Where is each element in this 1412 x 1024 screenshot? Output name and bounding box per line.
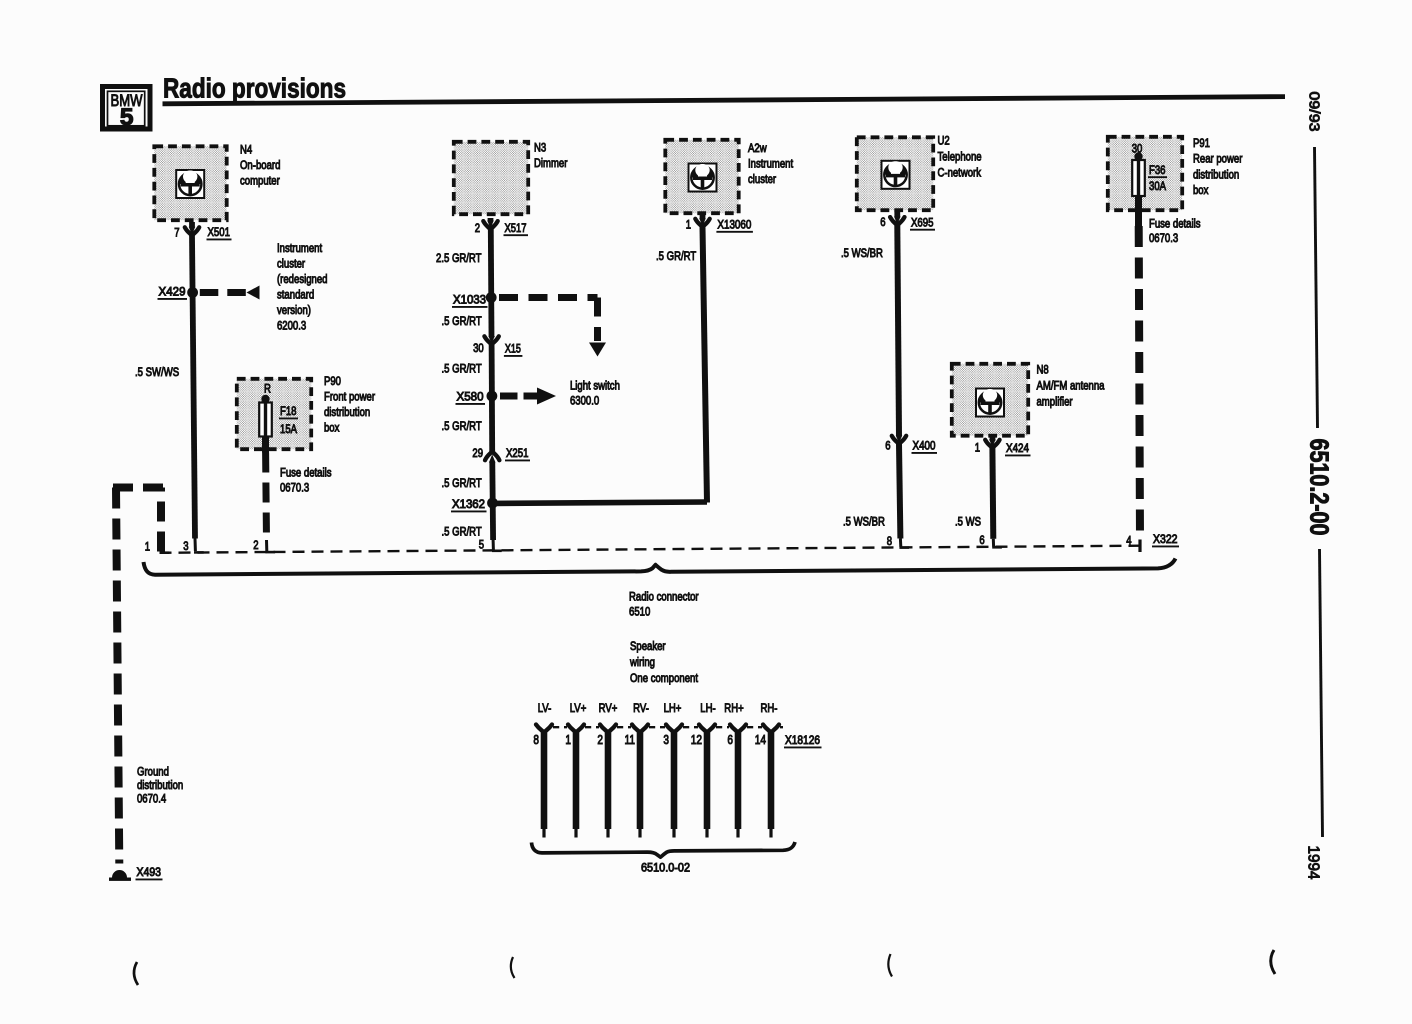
- label U2 Telephone C-network: [938, 134, 982, 180]
- ground terminal X493: [109, 870, 131, 881]
- component A2w instrument cluster box: [665, 140, 738, 213]
- wire stub from N3 pin 2: [488, 218, 494, 221]
- wire stub from N8 pin 1: [990, 438, 996, 441]
- wire foot at pin 1: [160, 551, 170, 554]
- wire foot at pin 6: [992, 546, 1002, 549]
- svg-text:0670.4: 0670.4: [137, 792, 166, 806]
- label Fuse details 0670.3 (P91): [1149, 217, 1201, 246]
- svg-text:Fuse details: Fuse details: [280, 466, 332, 480]
- svg-text:amplifier: amplifier: [1037, 395, 1073, 409]
- svg-text:11: 11: [625, 732, 636, 747]
- svg-text:X493: X493: [137, 865, 162, 879]
- svg-text:X18126: X18126: [785, 733, 820, 747]
- component N8 AM/FM antenna amplifier box: [952, 364, 1028, 436]
- svg-text:RH-: RH-: [761, 701, 778, 715]
- connector X13060 fork: [695, 218, 709, 227]
- wire X424 to radio connector pin 6 (.5 WS): [989, 448, 996, 539]
- connector X15 fork: [484, 336, 498, 344]
- svg-text:.5 GR/RT: .5 GR/RT: [442, 419, 483, 433]
- svg-text:.5 GR/RT: .5 GR/RT: [656, 249, 697, 263]
- svg-text:C-network: C-network: [938, 166, 982, 180]
- component P91 rear power distribution box: [1108, 137, 1182, 210]
- speaker wire end stub 14: [769, 829, 772, 838]
- sidebar rule lower: [1320, 549, 1323, 837]
- thin wire end at pin 6: [992, 539, 995, 547]
- wire X15 to X251: [489, 345, 495, 452]
- svg-text:version): version): [277, 303, 311, 317]
- svg-text:wiring: wiring: [629, 655, 655, 669]
- label P90 Front power distribution box: [324, 374, 375, 435]
- svg-text:Dimmer: Dimmer: [534, 156, 567, 170]
- label Fuse details 0670.3 (P90): [280, 466, 332, 495]
- title underline rule: [163, 97, 1286, 104]
- dashed jumper line across speaker forks: [553, 726, 783, 728]
- svg-text:X695: X695: [911, 215, 934, 229]
- arrowhead right to light switch: [537, 388, 556, 405]
- svg-text:7: 7: [174, 226, 179, 240]
- svg-text:X517: X517: [505, 221, 527, 235]
- speaker wire end stub 1: [574, 829, 577, 838]
- label Ground distribution 0670.4: [137, 765, 183, 806]
- svg-text:12: 12: [691, 732, 702, 747]
- svg-text:cluster: cluster: [277, 257, 305, 271]
- thin wire end at pin 8: [899, 539, 902, 547]
- svg-text:distribution: distribution: [137, 778, 183, 792]
- svg-text:X429: X429: [159, 285, 186, 299]
- svg-text:F36: F36: [1149, 163, 1166, 177]
- svg-text:X1033: X1033: [453, 293, 486, 307]
- svg-text:.5 SW/WS: .5 SW/WS: [135, 365, 179, 379]
- thin wire end at pin 5: [492, 540, 495, 550]
- wire foot at pin 2: [265, 551, 275, 554]
- svg-text:1994: 1994: [1305, 846, 1322, 880]
- svg-text:One component: One component: [630, 671, 698, 685]
- speaker fork pin 1: [568, 725, 584, 733]
- svg-text:A2w: A2w: [748, 141, 767, 155]
- speaker fork pin 2: [600, 725, 616, 733]
- svg-text:0670.3: 0670.3: [1149, 231, 1178, 245]
- label N8 AM/FM antenna amplifier: [1037, 363, 1105, 409]
- arrowhead down to light switch: [589, 343, 606, 357]
- svg-text:6510: 6510: [629, 605, 650, 619]
- arrowhead toward X429 (instrument cluster feed): [247, 286, 260, 300]
- svg-text:X322: X322: [1153, 532, 1178, 546]
- speaker wire 11: [637, 733, 644, 830]
- wire X400 to radio connector pin 8: [899, 444, 900, 539]
- brace radio connector 6510: [144, 559, 1176, 575]
- svg-text:X15: X15: [505, 342, 521, 356]
- svg-text:X501: X501: [208, 225, 231, 239]
- radio connector dashed line: [160, 546, 1141, 553]
- svg-text:6: 6: [727, 732, 733, 747]
- svg-text:3: 3: [183, 539, 188, 553]
- node X580: [487, 391, 498, 402]
- node X1033: [486, 292, 497, 303]
- sidebar rule upper: [1315, 147, 1318, 428]
- svg-text:P90: P90: [324, 374, 341, 388]
- connector X517 fork: [483, 221, 497, 230]
- svg-text:Instrument: Instrument: [748, 157, 794, 171]
- svg-text:8: 8: [887, 534, 892, 548]
- speaker wire end stub 8: [542, 829, 545, 838]
- label P91 Rear power distribution box: [1193, 136, 1242, 197]
- wire U2 X695 to X400: [897, 225, 899, 435]
- speaker fork pin 8: [536, 725, 552, 733]
- node X429: [187, 287, 198, 298]
- svg-text:X400: X400: [913, 439, 936, 453]
- svg-text:.5 GR/RT: .5 GR/RT: [442, 525, 483, 539]
- svg-text:Speaker: Speaker: [630, 639, 666, 653]
- svg-text:U2: U2: [938, 134, 950, 148]
- speaker fork pin 3: [666, 725, 682, 733]
- svg-text:X1362: X1362: [452, 497, 485, 511]
- svg-text:.5 WS: .5 WS: [955, 515, 981, 529]
- svg-text:14: 14: [755, 732, 766, 747]
- fold mark 3: [888, 954, 892, 977]
- speaker fork pin 14: [763, 725, 779, 733]
- svg-text:.5 WS/BR: .5 WS/BR: [843, 515, 885, 529]
- svg-text:8: 8: [533, 732, 539, 747]
- svg-text:.5 GR/RT: .5 GR/RT: [442, 476, 483, 490]
- dashed wire P90 to radio connector pin 2: [262, 453, 270, 541]
- speaker wire 8: [541, 733, 548, 830]
- svg-text:.5 WS/BR: .5 WS/BR: [841, 246, 883, 260]
- thin wire end at pin 2: [265, 540, 268, 551]
- svg-text:X13060: X13060: [717, 217, 751, 231]
- svg-text:X424: X424: [1006, 441, 1029, 455]
- svg-text:X580: X580: [457, 390, 484, 404]
- thin wire end at pin 3: [194, 539, 197, 552]
- speaker fork pin 6: [730, 725, 746, 733]
- svg-text:LH-: LH-: [700, 701, 715, 715]
- svg-text:3: 3: [663, 732, 669, 747]
- wire from fuse F36: [1135, 196, 1142, 226]
- svg-text:N4: N4: [240, 143, 252, 157]
- svg-text:X251: X251: [506, 446, 529, 460]
- svg-text:15A: 15A: [280, 422, 298, 436]
- wire foot at pin 3: [194, 551, 204, 554]
- connector X424 fork: [985, 439, 999, 448]
- component P90 front power distribution box: [237, 379, 311, 449]
- svg-text:0670.3: 0670.3: [280, 481, 309, 495]
- fuse F18 15A symbol: [259, 395, 272, 438]
- svg-text:F18: F18: [280, 404, 297, 418]
- svg-text:On-board: On-board: [240, 158, 280, 172]
- svg-text:2: 2: [253, 538, 258, 552]
- svg-text:RV+: RV+: [599, 701, 618, 715]
- svg-text:2: 2: [597, 732, 603, 747]
- svg-text:(redesigned: (redesigned: [277, 272, 328, 286]
- svg-text:computer: computer: [240, 174, 280, 188]
- fold mark 2: [511, 957, 515, 978]
- speaker wire 14: [768, 733, 775, 830]
- dashed branch wire to instrument cluster: [200, 289, 246, 296]
- wire X1362 to A2w branch: [493, 502, 708, 503]
- speaker wire end stub 2: [606, 829, 609, 838]
- svg-text:Fuse details: Fuse details: [1149, 217, 1201, 231]
- speaker wire 3: [671, 733, 678, 830]
- component U2 telephone box: [857, 137, 933, 210]
- label Speaker wiring One component: [629, 639, 698, 685]
- N8 control-unit symbol: [976, 389, 1004, 417]
- dashed ground wire bridge: [157, 488, 165, 552]
- speaker fork pin 11: [632, 725, 648, 733]
- svg-text:6200.3: 6200.3: [277, 319, 306, 333]
- speaker wire end stub 3: [672, 829, 675, 838]
- svg-text:cluster: cluster: [748, 172, 776, 186]
- svg-text:LV-: LV-: [538, 701, 552, 715]
- wire N4 to radio connector pin 3 (.5 SW/WS): [192, 236, 195, 539]
- component N4 on-board computer box: [154, 146, 226, 220]
- connector X695 fork: [890, 217, 904, 226]
- svg-text:6: 6: [979, 533, 984, 547]
- svg-text:1: 1: [686, 217, 691, 231]
- svg-text:30: 30: [473, 341, 484, 355]
- svg-text:1: 1: [975, 441, 980, 455]
- svg-text:6: 6: [880, 215, 885, 229]
- svg-text:LH+: LH+: [664, 701, 682, 715]
- speaker wire 2: [605, 733, 612, 830]
- connector X251 fork: [485, 452, 499, 463]
- wire X251 to radio connector pin 5: [489, 463, 496, 541]
- connector X501 fork: [185, 227, 199, 236]
- label Light switch 6300.0: [570, 379, 620, 408]
- dashed branch wire from X1033 to light switch: [499, 298, 598, 342]
- svg-text:box: box: [324, 421, 339, 435]
- svg-text:5: 5: [120, 104, 134, 131]
- wire foot at pin 8: [899, 546, 909, 549]
- svg-text:R: R: [264, 382, 271, 396]
- svg-text:RH+: RH+: [724, 701, 743, 715]
- svg-text:29: 29: [472, 446, 483, 460]
- wire stub from N4 pin 7: [189, 222, 195, 228]
- speaker wire 6: [735, 733, 742, 830]
- svg-text:Front power: Front power: [324, 390, 375, 404]
- wire stub from A2w pin 1: [700, 215, 706, 219]
- dashed arrow wire to light switch 6300.0: [500, 393, 518, 400]
- svg-text:2: 2: [475, 221, 480, 235]
- speaker fork pin 12: [699, 725, 715, 733]
- fold mark 1: [134, 962, 138, 985]
- svg-text:Telephone: Telephone: [938, 150, 982, 164]
- svg-text:P91: P91: [1193, 136, 1210, 150]
- fuse F36 30A symbol: [1132, 152, 1145, 197]
- svg-text:Instrument: Instrument: [277, 241, 323, 255]
- node X1362: [487, 498, 498, 509]
- connector X400 fork: [892, 436, 906, 444]
- svg-text:N3: N3: [534, 141, 546, 155]
- svg-text:N8: N8: [1037, 363, 1049, 377]
- label A2w Instrument cluster: [748, 141, 794, 186]
- svg-text:.5 GR/RT: .5 GR/RT: [442, 362, 483, 376]
- svg-text:AM/FM antenna: AM/FM antenna: [1037, 379, 1105, 393]
- dashed wire P91 to connector X322: [1139, 226, 1140, 540]
- svg-text:6: 6: [885, 439, 890, 453]
- wire stub from U2 pin 6: [894, 212, 900, 217]
- svg-text:6300.0: 6300.0: [570, 394, 599, 408]
- svg-text:6510.0-02: 6510.0-02: [641, 861, 690, 875]
- component N3 dimmer box: [454, 142, 528, 214]
- svg-text:LV+: LV+: [570, 701, 587, 715]
- svg-text:.5 GR/RT: .5 GR/RT: [442, 314, 483, 328]
- svg-text:Light switch: Light switch: [570, 379, 620, 393]
- svg-text:distribution: distribution: [1193, 167, 1239, 181]
- N4 control-unit symbol: [176, 170, 204, 198]
- U2 control-unit symbol: [882, 161, 910, 189]
- speaker wire end stub 6: [736, 829, 739, 838]
- thin wire end at X322: [1138, 540, 1141, 553]
- label Radio connector 6510: [629, 590, 699, 619]
- fold mark 4: [1271, 950, 1275, 974]
- speaker wire 12: [704, 733, 711, 830]
- wire from fuse F18: [262, 437, 269, 453]
- svg-text:Rear power: Rear power: [1193, 152, 1242, 166]
- BMW 5 logo box: [103, 87, 151, 131]
- svg-text:1: 1: [565, 732, 571, 747]
- speaker wire end stub 11: [638, 829, 641, 838]
- wire N3 X517 to X15: [488, 229, 495, 336]
- svg-text:distribution: distribution: [324, 405, 370, 419]
- svg-text:1: 1: [145, 539, 150, 553]
- svg-text:09/93: 09/93: [1306, 92, 1322, 132]
- svg-text:Radio connector: Radio connector: [629, 590, 699, 604]
- svg-text:box: box: [1193, 183, 1208, 197]
- brace 6510.0-02: [532, 842, 796, 857]
- label N3 Dimmer: [534, 141, 567, 171]
- svg-text:30A: 30A: [1149, 179, 1167, 193]
- wire foot at pin 5: [492, 549, 502, 552]
- label N4 On-board computer: [240, 143, 280, 188]
- svg-text:standard: standard: [277, 288, 314, 302]
- svg-text:RV-: RV-: [633, 701, 649, 715]
- wire A2w down to X1362 junction: [703, 227, 708, 503]
- label instrument cluster (redesigned standard version) 6200.3: [277, 241, 328, 333]
- svg-text:Radio provisions: Radio provisions: [163, 73, 346, 104]
- svg-text:Ground: Ground: [137, 765, 169, 779]
- speaker wire end stub 12: [705, 829, 708, 838]
- speaker wire 1: [573, 733, 580, 830]
- A2w control-unit symbol: [689, 164, 717, 192]
- svg-text:6510.2-00: 6510.2-00: [1305, 439, 1333, 536]
- svg-text:2.5 GR/RT: 2.5 GR/RT: [436, 251, 482, 265]
